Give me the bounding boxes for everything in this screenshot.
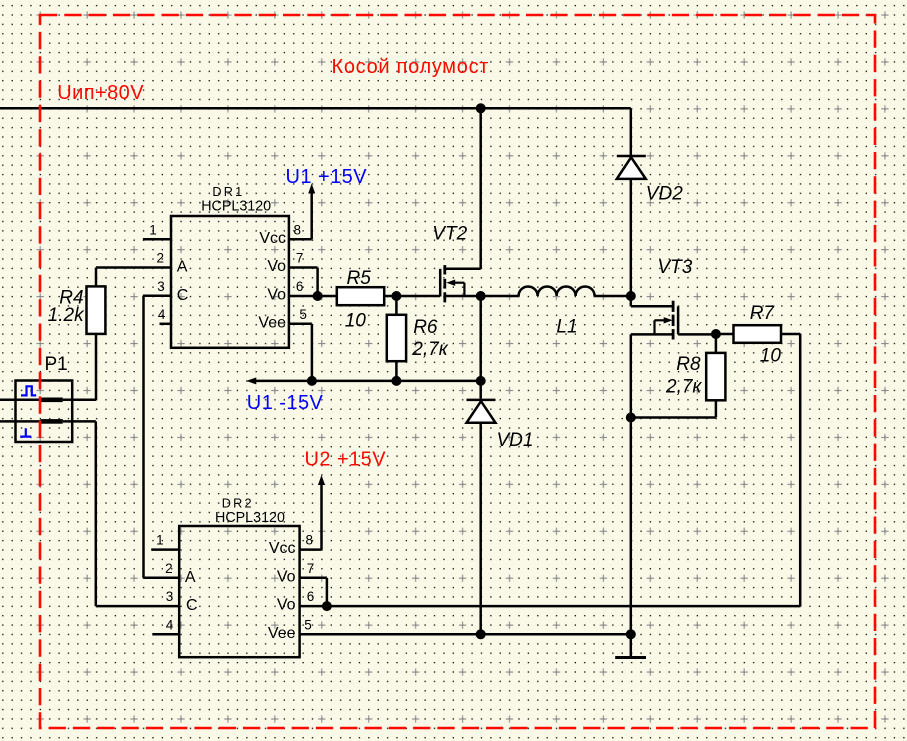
resistor R8	[706, 353, 725, 400]
DR2 pin7 down wire	[326, 578, 329, 606]
svg-text:VD1: VD1	[497, 430, 534, 451]
wire rail to VD2	[630, 108, 633, 155]
wire R8 top	[715, 334, 718, 353]
wire to U1+15V arrow	[310, 189, 313, 239]
VT3 channel top	[672, 301, 675, 312]
arrow U2+15V	[318, 475, 325, 485]
DR2 pin 2 wire	[144, 577, 180, 580]
svg-text:DR1: DR1	[212, 185, 244, 199]
resistor R6	[387, 315, 406, 361]
svg-text:5: 5	[299, 307, 307, 322]
svg-text:U1 +15V: U1 +15V	[286, 166, 368, 188]
wire R6 bottom	[395, 361, 398, 381]
svg-text:VD2: VD2	[646, 184, 683, 205]
VD1 cathode bar	[467, 399, 496, 402]
DR1 pin7 down wire	[316, 268, 319, 297]
svg-text:Vo: Vo	[267, 258, 286, 275]
svg-text:4: 4	[158, 307, 166, 322]
VT3 body arrow	[664, 317, 673, 323]
wire U1-15V line	[250, 380, 481, 383]
arrow U1-15V	[246, 377, 256, 384]
wire VD1 anode down	[479, 424, 482, 634]
VT3 gate wire to R7	[678, 333, 716, 336]
svg-text:4: 4	[166, 617, 174, 632]
wire VT3 source to ground	[630, 334, 633, 657]
junction R6/U1-15V	[391, 376, 401, 386]
VT3 source wire	[631, 333, 673, 336]
svg-text:2,7к: 2,7к	[665, 377, 702, 398]
VT3 drain tap	[630, 296, 633, 306]
wire to L1	[481, 295, 519, 298]
svg-text:2,7к: 2,7к	[411, 339, 448, 360]
DR2 pin 5 Vee line	[300, 633, 631, 636]
wire node to R7	[716, 333, 734, 336]
VD2 cathode bar	[617, 155, 646, 158]
svg-text:2: 2	[165, 561, 173, 576]
DR2 pin 8 wire	[300, 548, 322, 551]
wire R7 right	[781, 333, 800, 336]
VT2 gate bar	[439, 269, 442, 297]
svg-text:U1 -15V: U1 -15V	[247, 392, 324, 414]
svg-text:A: A	[185, 569, 196, 586]
junction rail/VT2 drain	[476, 103, 486, 113]
VT3 channel bottom	[672, 329, 675, 339]
svg-text:R8: R8	[676, 354, 701, 375]
svg-text:10: 10	[760, 346, 782, 367]
DR1 pin 8 wire	[289, 238, 312, 241]
DR1 pin5 down wire	[311, 324, 314, 381]
wire R5 to VT2 gate	[384, 295, 440, 298]
op-amp U1 DR1 HCPL3120 body	[171, 216, 289, 348]
junction VT2 source/VD1/L1	[476, 291, 486, 301]
svg-text:Vo: Vo	[277, 597, 296, 614]
VT3 body wire h	[655, 319, 665, 321]
svg-text:7: 7	[296, 251, 304, 266]
junction R8/source line	[626, 413, 636, 423]
connector P1 body	[16, 381, 73, 443]
VT3 drain wire	[631, 305, 673, 308]
VT3 gate bar	[677, 306, 680, 334]
svg-text:1: 1	[149, 222, 157, 237]
VT2 body wire v	[463, 283, 465, 296]
svg-text:VT2: VT2	[432, 224, 467, 245]
svg-text:Uип+80V: Uип+80V	[57, 82, 144, 104]
wire R8 to source line	[631, 416, 716, 419]
DR1 pin 6 wire	[289, 295, 337, 298]
wire Uip+80V rail	[0, 107, 631, 110]
DR2 pin 7 wire	[300, 577, 327, 580]
svg-text:HCPL3120: HCPL3120	[215, 510, 285, 526]
wire into P1 pin2	[0, 420, 41, 423]
junction Vee/U1-15V	[307, 376, 317, 386]
svg-text:R6: R6	[413, 317, 438, 338]
svg-text:Vee: Vee	[258, 314, 286, 331]
DR1 pin 5 wire	[289, 323, 312, 326]
junction VD1 line/U1-15V	[476, 376, 486, 386]
svg-text:7: 7	[307, 561, 315, 576]
svg-text:6: 6	[307, 589, 315, 604]
resistor R7	[734, 325, 782, 343]
svg-text:3: 3	[166, 589, 174, 604]
VT2 channel mid	[443, 279, 446, 289]
svg-text:3: 3	[157, 279, 165, 294]
svg-text:VT3: VT3	[658, 257, 693, 278]
svg-text:8: 8	[294, 222, 302, 237]
svg-text:Vee: Vee	[268, 625, 296, 642]
VT2 channel bottom	[443, 292, 446, 302]
wire pin2 to R4	[95, 268, 98, 287]
junction VD1/Vee line	[476, 629, 486, 639]
wire P1 pin1 to R4	[63, 399, 96, 402]
svg-text:2: 2	[157, 251, 165, 266]
VT2 channel top	[443, 265, 446, 274]
VT2 drain wire	[445, 268, 481, 271]
svg-text:DR2: DR2	[222, 496, 254, 510]
svg-text:P1: P1	[45, 354, 68, 375]
P1 pulse symbol	[21, 386, 36, 395]
DR1 pin 4 stub	[160, 323, 172, 326]
svg-text:Косой полумост: Косой полумост	[332, 56, 490, 78]
VT2 body wire h	[454, 282, 464, 284]
svg-text:A: A	[177, 259, 188, 276]
ground bar	[615, 656, 646, 659]
wire R7 down to DR2 out	[799, 334, 802, 606]
DR1 pin 7 wire	[289, 266, 318, 269]
DR1 pin 3 stub	[143, 295, 171, 298]
svg-text:5: 5	[304, 617, 312, 632]
DR1 pin 1 stub	[143, 238, 171, 241]
wire R8 bottom	[715, 400, 718, 417]
arrow U1+15V	[308, 184, 315, 194]
junction R5/R6/gate	[391, 291, 401, 301]
resistor R5	[337, 287, 384, 305]
svg-text:Vcc: Vcc	[269, 540, 296, 557]
op-amp U2 DR2 HCPL3120 body	[179, 526, 299, 657]
svg-text:R5: R5	[347, 268, 372, 289]
resistor R4	[87, 286, 106, 334]
wire VT2 source down to VD1	[479, 296, 482, 399]
P1 contact 2	[41, 419, 63, 424]
VT2 source wire	[445, 295, 482, 298]
wire L1 to node	[595, 295, 631, 298]
VT3 body wire v	[653, 320, 655, 334]
svg-text:R7: R7	[750, 303, 776, 324]
svg-text:C: C	[177, 287, 189, 304]
junction gate/R7/R8	[711, 329, 721, 339]
DR2 pin 4 stub	[152, 633, 179, 636]
svg-text:Vcc: Vcc	[259, 230, 286, 247]
junction L1/VD2/VT3	[626, 291, 636, 301]
DR1 pin 2 wire	[96, 266, 171, 269]
wire R4 to P1	[95, 334, 98, 400]
svg-text:10: 10	[345, 310, 367, 331]
wire to U2+15V arrow	[320, 481, 323, 550]
wire P1 pin2 out	[63, 420, 96, 423]
junction Vee line/ground	[626, 629, 636, 639]
svg-text:HCPL3120: HCPL3120	[201, 199, 271, 215]
svg-text:C: C	[186, 597, 198, 614]
svg-text:Vo: Vo	[267, 286, 286, 303]
junction pin7/pin6	[313, 291, 323, 301]
wire R6 top	[395, 296, 398, 315]
wire P1 pin2 down to DR2 pin3	[95, 421, 98, 606]
wire rail to VT2 drain	[479, 108, 482, 268]
DR2 pin 6 output line	[300, 605, 801, 608]
svg-text:1.2k: 1.2k	[48, 305, 85, 326]
junction DR2 pin7/pin6	[322, 601, 332, 611]
svg-text:U2 +15V: U2 +15V	[305, 449, 387, 471]
svg-text:8: 8	[306, 533, 314, 548]
wire VD2 anode to node	[630, 180, 633, 296]
wire into P1 pin1	[0, 399, 41, 402]
DR2 pin 1 stub	[151, 548, 179, 551]
VT2 body arrow	[446, 280, 455, 286]
DR2 pin 3 wire	[96, 605, 179, 608]
P1 ground symbol	[20, 428, 31, 436]
svg-text:6: 6	[296, 279, 304, 294]
VT3 channel mid	[672, 315, 675, 326]
svg-text:1: 1	[156, 533, 164, 548]
wire DR1 pin3 down to DR2 pin2	[142, 296, 145, 578]
P1 contact 1	[41, 398, 63, 403]
svg-text:L1: L1	[556, 317, 577, 338]
svg-text:Vo: Vo	[277, 568, 296, 585]
